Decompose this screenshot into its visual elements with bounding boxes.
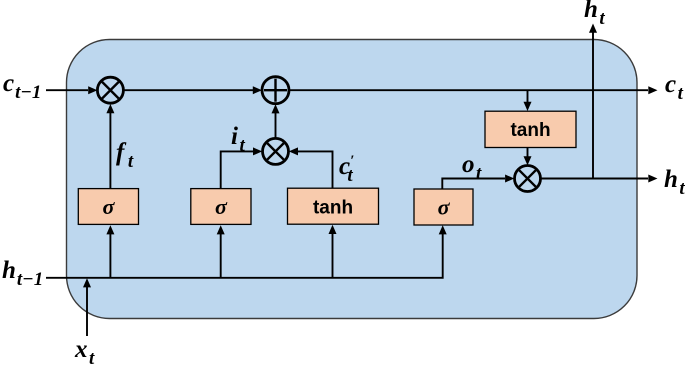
wire c_{t-1} input to multiply node bbox=[46, 86, 97, 94]
tanh2 box (output tanh) bbox=[485, 111, 576, 147]
wire multiply X2 up to add node bbox=[272, 104, 280, 138]
wire o_t: sigma4 up and right into multiply X3 bbox=[442, 175, 514, 190]
wire x_t input from below bbox=[83, 278, 91, 336]
multiply node X1 (forget gate product) bbox=[97, 77, 123, 103]
tanh1 box (candidate) bbox=[288, 188, 379, 224]
LSTM cell body bbox=[67, 40, 638, 319]
svg-text:σ: σ bbox=[438, 195, 451, 220]
wire f_t: sigma1 up to multiply X1 bbox=[106, 104, 114, 189]
sigma2 box (input gate) bbox=[191, 189, 251, 225]
wire i_t: sigma2 up and right into multiply X2 bbox=[221, 147, 263, 188]
sigma1 box (forget gate) bbox=[78, 189, 138, 225]
svg-text:σ: σ bbox=[215, 194, 228, 219]
wire multiply X1 to add node bbox=[123, 86, 262, 94]
wire c line branch down into tanh2 bbox=[524, 90, 532, 111]
wire h_{t-1} input line turning up into sigma4 bbox=[46, 225, 447, 278]
wire tanh2 down to multiply X3 bbox=[524, 148, 532, 166]
svg-text:tanh: tanh bbox=[510, 120, 550, 141]
add node PLUS (cell state sum) bbox=[262, 77, 289, 104]
wire multiply X3 to h_t right output bbox=[541, 175, 658, 183]
wire add node to c_t output bbox=[289, 86, 658, 94]
svg-text:tanh: tanh bbox=[313, 198, 353, 219]
wire h_t branch up through cell top bbox=[589, 24, 597, 179]
multiply node X3 (output gate product) bbox=[515, 166, 541, 192]
wire branch up into sigma1 bbox=[106, 225, 114, 278]
multiply node X2 (input gate product) bbox=[263, 138, 289, 164]
wire c'_t: tanh1 up and left into multiply X2 bbox=[289, 147, 333, 188]
wire branch up into tanh1 bbox=[329, 225, 337, 278]
wire branch up into sigma2 bbox=[217, 225, 225, 278]
svg-text:σ: σ bbox=[102, 194, 115, 219]
sigma4 box (output gate) bbox=[414, 189, 473, 225]
